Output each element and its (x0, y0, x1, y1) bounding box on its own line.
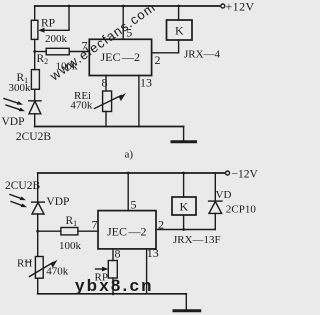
svg-text:100k: 100k (59, 240, 82, 252)
svg-text:300k: 300k (9, 82, 32, 94)
ground symbol (a) (172, 127, 196, 142)
svg-text:−12V: −12V (232, 169, 259, 181)
arrow across RH (b) (30, 260, 58, 277)
wire -12V top rail (circuit b) (38, 172, 225, 174)
junction node RP wiper/rail (68, 5, 71, 8)
svg-text:VDP: VDP (2, 116, 25, 128)
junction node RP/rail (b) (112, 292, 115, 295)
terminal -12V (226, 171, 230, 175)
ground symbol (b) (174, 294, 200, 311)
svg-text:—2: —2 (128, 225, 147, 239)
svg-text:VD: VD (216, 189, 232, 201)
light arrow 2 into VDP (a) (6, 105, 25, 111)
svg-text:JEC: JEC (101, 50, 121, 64)
svg-text:200k: 200k (45, 33, 68, 45)
svg-text:+12V: +12V (226, 0, 255, 14)
wire pin5 (a) (122, 6, 124, 39)
svg-text:ybx8.cn: ybx8.cn (75, 276, 154, 295)
wire R2 right to pin7 (a) (69, 51, 89, 53)
potentiometer RP body (31, 20, 38, 39)
wire pin8 (b) (112, 249, 114, 261)
potentiometer RP wiper arrow (b) (96, 267, 109, 272)
wire rail to photodiode (b) (37, 173, 39, 202)
resistor R1 body (b) (61, 228, 78, 235)
wire relay K to rail (a) (178, 6, 180, 20)
light arrow 1 into VDP (a) (4, 99, 23, 105)
wire node to R2 left (35, 51, 47, 53)
svg-text:2: 2 (158, 218, 164, 232)
potentiometer RP body (b) (108, 261, 117, 279)
relay K box (a) (167, 20, 193, 40)
wire R1 run (b) left (38, 230, 61, 232)
svg-text:JRX—4: JRX—4 (184, 49, 221, 61)
svg-text:—2: —2 (121, 50, 140, 64)
resistor R2 body (46, 48, 69, 55)
svg-text:13: 13 (140, 76, 152, 90)
wire RH bottom to rail (b) (37, 278, 39, 294)
junction node K/pin2 run (b) (182, 228, 185, 231)
junction node K/rail (b) (182, 172, 185, 175)
svg-text:K: K (180, 200, 189, 214)
wire RP bottom to R2 node (34, 39, 36, 69)
svg-text:5: 5 (131, 198, 137, 212)
svg-text:8: 8 (115, 247, 121, 261)
svg-text:a): a) (125, 149, 134, 161)
wire +12V top rail (circuit a) (35, 5, 220, 7)
svg-text:RP: RP (41, 18, 55, 30)
svg-text:470k: 470k (46, 266, 69, 278)
wire bottom rail (b) (38, 293, 187, 295)
svg-text:VDP: VDP (46, 196, 69, 208)
wire left vertical from rail to RP (34, 6, 36, 20)
diode VD 2CP10 (b) (209, 173, 222, 230)
arrow across REi (a) (95, 93, 127, 109)
op IC U2 JEC-2 box (b) (98, 211, 156, 249)
wire R1 right to pin7 (b) (78, 230, 98, 232)
light arrow 2 into VDP (b) (11, 202, 27, 208)
wire K bottom to pin2 run (b) (183, 215, 185, 230)
svg-text:JEC: JEC (107, 225, 127, 239)
relay K box (b) (172, 197, 196, 215)
svg-text:K: K (175, 24, 184, 38)
wire pin13 to ground rail (a) (138, 76, 140, 127)
svg-text:7: 7 (92, 218, 98, 232)
wire pin13 to rail (b) (146, 249, 148, 294)
photoresistor REi body (a) (103, 91, 112, 112)
svg-text:2CP10: 2CP10 (226, 204, 256, 216)
wire RP bottom to rail (b) (112, 278, 114, 294)
wire bottom rail (a) (35, 126, 184, 128)
wire REi bottom to ground rail (a) (105, 112, 107, 127)
svg-text:2CU2B: 2CU2B (16, 131, 51, 143)
junction node K/rail (a) (177, 5, 180, 8)
junction node pin5/rail (a) (122, 5, 125, 8)
wire pin8 (a) (105, 76, 107, 92)
wire pin5 (b) (127, 173, 129, 211)
svg-text:JRX—13F: JRX—13F (173, 234, 221, 246)
potentiometer RP wiper arrow (38, 6, 69, 33)
light arrow 1 into VDP (b) (10, 195, 26, 201)
junction node R1/left wire (b) (36, 230, 39, 233)
junction node R2/left wire (a) (33, 50, 36, 53)
svg-text:13: 13 (147, 246, 159, 260)
terminal +12V (221, 4, 225, 8)
rheostat RH body (b) (35, 257, 43, 279)
svg-text:RĦ: RĦ (17, 258, 32, 270)
svg-text:2: 2 (155, 53, 161, 67)
svg-text:8: 8 (102, 76, 108, 90)
wire pin2 run to diode (b) (156, 229, 215, 231)
resistor R1 body (31, 70, 39, 90)
wire R1 bottom to photodiode (34, 89, 36, 101)
photodiode VDP (b) (32, 202, 45, 256)
op IC U1 JEC-2 box (a) (89, 39, 151, 75)
wire K top to rail (b) (183, 173, 185, 197)
svg-text:470k: 470k (70, 100, 93, 112)
junction node pin5/rail (b) (127, 172, 130, 175)
wire pin2 to relay (a) (152, 40, 179, 53)
photodiode VDP (a) (29, 101, 41, 127)
svg-text:2CU2B: 2CU2B (5, 180, 40, 192)
